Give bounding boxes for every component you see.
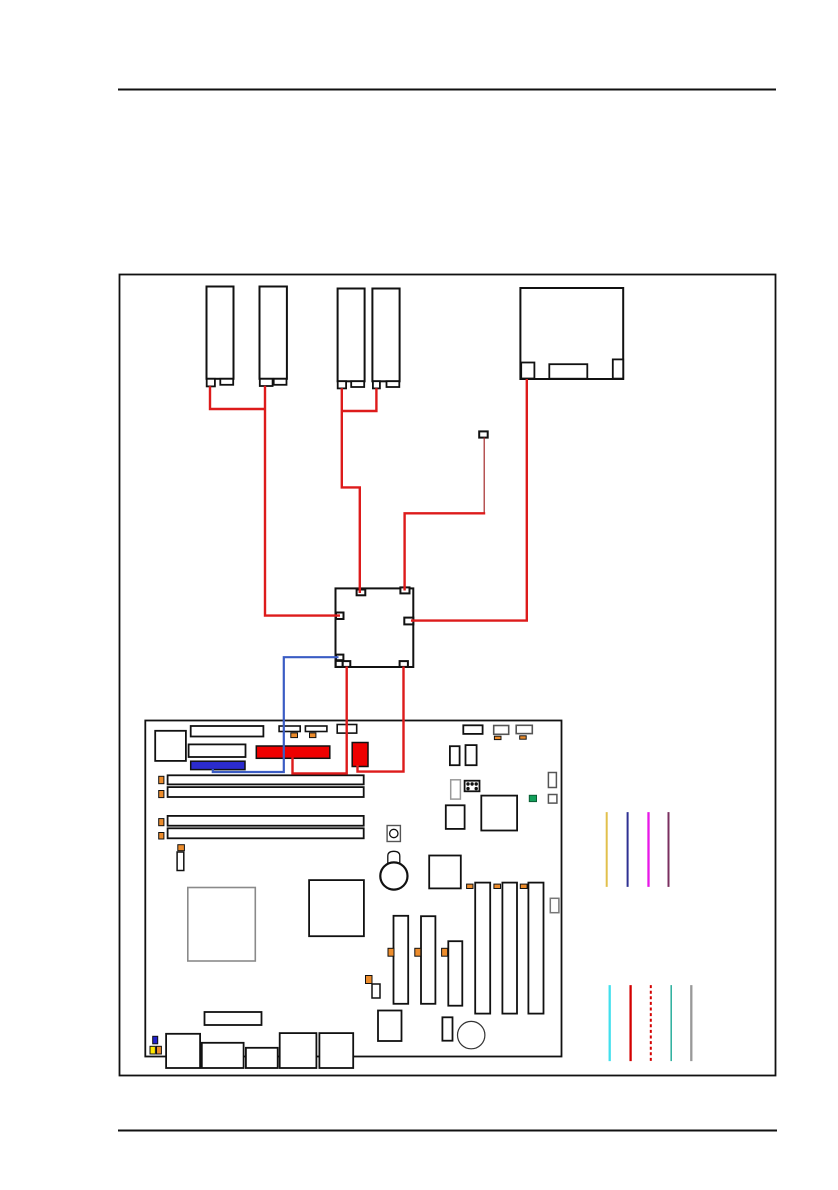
drive D1 data connector: [220, 379, 233, 385]
io connector 1: [166, 1034, 200, 1068]
io connector 3: [246, 1048, 278, 1068]
green led: [529, 795, 536, 801]
diagram frame: [120, 275, 776, 1076]
battery: [380, 862, 407, 889]
legend dotted red line: [650, 985, 652, 1061]
hub left-top port: [336, 613, 344, 620]
ISA slot 1: [475, 883, 490, 1014]
io connector 2: [202, 1043, 244, 1068]
wire drive1 to junction: [210, 386, 265, 409]
header B pin: [310, 733, 316, 738]
drive D3 power connector: [338, 381, 346, 388]
cpu socket: [155, 731, 186, 761]
header connector B: [305, 726, 327, 732]
legend maroon line: [668, 812, 670, 887]
edge connector small 1: [548, 773, 556, 788]
legend navy line: [627, 812, 629, 887]
ISA slot 1 key: [467, 884, 473, 888]
drive D2 data connector: [274, 379, 287, 385]
ISA slot 3 key: [520, 884, 527, 888]
PCI slot 1 key: [388, 948, 394, 956]
chip small left of chipset: [446, 805, 465, 829]
connector header G: [450, 746, 460, 765]
footer rule: [118, 1130, 777, 1132]
legend cyan line: [609, 985, 611, 1061]
chipset south: [481, 796, 517, 831]
fan header pin: [178, 845, 185, 851]
DIMM slot 4: [168, 828, 364, 838]
hub top-left port: [357, 590, 366, 596]
jumper block: [465, 781, 480, 792]
aux header pin: [366, 976, 373, 984]
wire blue hub left-bottom port to blue DIMM: [213, 657, 339, 772]
memory slot red: [256, 746, 330, 758]
drive D4 body: [372, 289, 399, 382]
header connector A: [279, 726, 300, 732]
jumper pins: [466, 782, 478, 790]
legend magenta line: [647, 812, 649, 887]
DIMM slot 2: [168, 787, 364, 797]
battery neck: [388, 851, 400, 866]
PCI slot 2: [421, 916, 435, 1004]
wire drive3 to hub top-left port: [342, 388, 360, 593]
header connector D: [463, 725, 482, 734]
connector header I: [451, 780, 461, 799]
DIMM slot 4 key: [159, 833, 164, 840]
DIMM slot 2 key: [159, 791, 164, 798]
DIMM slot 1: [168, 775, 364, 784]
led orange: [157, 1046, 162, 1054]
hub corner port: [336, 661, 343, 667]
floating aux connector: [479, 431, 488, 437]
legend red line: [629, 985, 631, 1061]
wire cdrom to hub right port: [411, 379, 527, 621]
PCI slot 1: [394, 916, 409, 1004]
cdrom right connector: [613, 359, 623, 378]
drive D4 data connector: [387, 381, 400, 387]
header F pin: [520, 736, 527, 739]
PCI slot 3 key: [442, 948, 448, 956]
drive D1 power connector: [207, 379, 215, 387]
drive D3 data connector: [351, 381, 364, 387]
bottom small header: [442, 1017, 452, 1040]
drive D2 power connector: [260, 379, 273, 386]
cdrom left connector: [521, 363, 534, 379]
header A pin: [291, 733, 298, 738]
wire drive2 to hub left-top port: [265, 386, 340, 616]
wire floating connector to hub top-right port: [405, 513, 486, 590]
PCI slot 3: [448, 941, 462, 1006]
edge connector small 3: [550, 898, 559, 912]
chipset north: [309, 880, 364, 936]
ISA slot 2 key: [494, 884, 501, 888]
header connector E: [494, 726, 509, 735]
crystal circle: [390, 829, 398, 837]
cable hub box: [336, 588, 414, 667]
bottom chip: [378, 1011, 402, 1042]
DIMM slot 3 key: [159, 819, 164, 826]
drive D2 body: [260, 287, 287, 379]
header connector C: [337, 725, 357, 734]
DIMM slot 1 key: [159, 776, 164, 783]
wire drive4 to junction: [342, 388, 377, 411]
drive D4 power connector: [373, 381, 380, 388]
cdrom middle connector: [549, 364, 587, 379]
io connector 5: [319, 1033, 353, 1068]
hub top-right port: [400, 587, 409, 593]
legend teal line: [670, 985, 672, 1061]
wire hub bottom-right port to red socket: [358, 667, 404, 772]
memory slot blue: [191, 761, 245, 769]
bottom wide connector: [205, 1012, 262, 1025]
chip right of battery: [429, 856, 461, 889]
led yellow: [150, 1046, 155, 1054]
memory slot white: [189, 744, 246, 757]
motherboard outline: [145, 721, 561, 1057]
legend gray line: [690, 985, 692, 1061]
header E pin: [494, 736, 501, 739]
fan header: [177, 852, 184, 871]
slot connector top: [191, 726, 264, 737]
hub right port: [404, 618, 413, 625]
connector header H: [466, 745, 477, 765]
ISA slot 3: [528, 883, 543, 1014]
cpu chip large: [188, 888, 256, 962]
wire hub bottom-left port to red DIMM: [293, 667, 347, 774]
speaker circle: [458, 1021, 485, 1048]
drive D1 body: [207, 287, 234, 379]
header rule: [118, 89, 776, 91]
red power socket: [352, 743, 368, 767]
io connector 4: [280, 1033, 317, 1068]
hub bottom-left port: [343, 661, 351, 667]
PCI slot 2 key: [415, 948, 421, 956]
header connector F: [516, 725, 532, 733]
legend yellow line: [606, 812, 608, 887]
led blue: [153, 1036, 158, 1044]
hub bottom-right port: [400, 661, 408, 667]
drive D3 body: [338, 289, 365, 382]
hub left-bottom port: [336, 655, 343, 661]
aux header: [372, 984, 380, 998]
wire floating connector thin lead: [483, 437, 485, 513]
edge connector small 2: [548, 795, 557, 804]
DIMM slot 3: [168, 816, 364, 826]
cdrom body: [520, 288, 623, 379]
ISA slot 2: [502, 883, 517, 1014]
crystal housing: [387, 826, 400, 842]
